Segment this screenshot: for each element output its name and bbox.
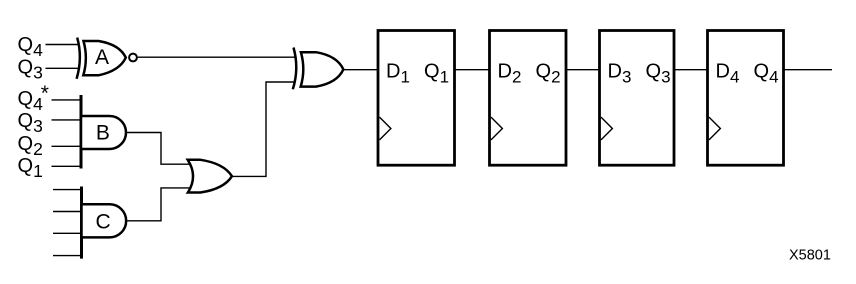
wire Q4 to XNOR A bbox=[46, 44, 79, 46]
wire OR output to XOR bbox=[232, 82, 295, 176]
AND C input bar bbox=[80, 187, 83, 259]
svg-text:A: A bbox=[95, 46, 109, 69]
wire Q3 to XNOR A bbox=[46, 67, 79, 69]
wire FF4 Q4 output bbox=[784, 69, 833, 71]
svg-text:X5801: X5801 bbox=[789, 247, 831, 263]
clock triangle FF1 bbox=[380, 117, 391, 140]
svg-text:C: C bbox=[96, 210, 111, 233]
wire FF2 Q2 to FF3 D3 bbox=[566, 69, 601, 71]
XNOR gate A bbox=[77, 38, 137, 79]
AND gate C bbox=[82, 204, 127, 237]
wire XOR output to FF1 bbox=[343, 69, 378, 71]
wire Q1 to AND B bbox=[52, 165, 82, 167]
wire FF3 Q3 to FF4 D4 bbox=[674, 69, 708, 71]
wire Q4* to AND B bbox=[52, 99, 82, 101]
wire Q2 to AND B bbox=[52, 145, 82, 147]
AND gate B bbox=[81, 116, 126, 149]
wire XNOR A output to XOR bbox=[138, 56, 295, 58]
flip-flop FF1 bbox=[378, 31, 455, 166]
clock triangle FF3 bbox=[601, 117, 612, 140]
clock triangle FF2 bbox=[491, 117, 502, 140]
XOR gate bbox=[293, 48, 344, 90]
flip-flop FF2 bbox=[490, 31, 567, 166]
flip-flop FF3 bbox=[600, 31, 675, 166]
AND B input bar bbox=[80, 95, 83, 169]
svg-text:B: B bbox=[96, 121, 110, 144]
wire AND C output to OR bbox=[126, 188, 191, 221]
clock triangle FF4 bbox=[709, 117, 720, 140]
wire stub 2 to AND C bbox=[53, 211, 82, 213]
wire Q3 to AND B bbox=[52, 119, 82, 121]
wire stub 3 to AND C bbox=[53, 232, 82, 234]
OR gate bbox=[188, 160, 232, 193]
wire AND B output to OR bbox=[126, 133, 191, 165]
flip-flop FF4 bbox=[708, 31, 784, 166]
wire FF1 Q1 to FF2 D2 bbox=[455, 69, 490, 71]
wire stub 1 to AND C bbox=[53, 189, 82, 191]
wire stub 4 to AND C bbox=[53, 255, 82, 257]
